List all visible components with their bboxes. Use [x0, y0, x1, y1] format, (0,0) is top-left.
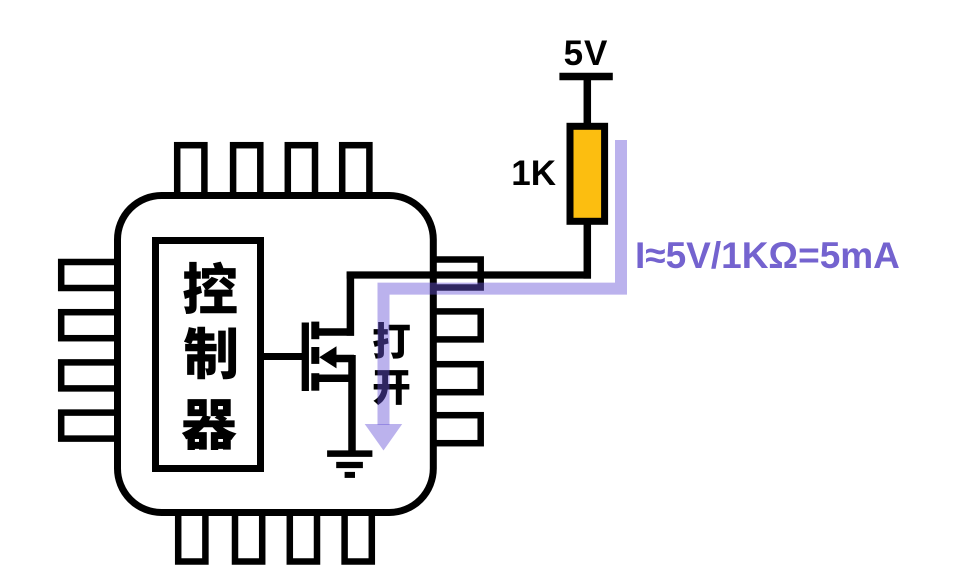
IC U1 microcontroller package body [118, 196, 434, 513]
current flow path (translucent purple) [384, 140, 622, 425]
label 制 [184, 327, 236, 380]
label 控 [183, 262, 236, 314]
current flow arrowhead [365, 424, 403, 451]
wire: output net from drain through right pin to resistor R1 [347, 271, 591, 278]
IC bottom pins (4) [178, 505, 372, 562]
power rail 5V bar [559, 73, 612, 81]
wire: controller output to gate of Q1 [258, 353, 305, 360]
transistor Q1 channel segments [311, 322, 319, 391]
IC right pins (4) [433, 260, 481, 444]
label 开 (turn-on annotation) [373, 370, 409, 405]
transistor Q1 drain stub [315, 328, 354, 336]
wire: drain up to output node [347, 272, 355, 336]
IC top pins (4) [177, 145, 369, 199]
transistor Q1 body stub with arrow [319, 346, 354, 368]
IC left pins (4) [61, 262, 120, 439]
controller block (控制器) box [156, 241, 261, 469]
svg-text:5V: 5V [564, 34, 609, 73]
resistor R1 1K body [570, 126, 605, 221]
svg-text:1K: 1K [511, 154, 556, 193]
label 打 (turn-on annotation) [373, 322, 410, 359]
transistor Q1 source stub [315, 375, 354, 383]
svg-text:I≈5V/1KΩ=5mA: I≈5V/1KΩ=5mA [635, 235, 900, 276]
wire: source/body down to ground [348, 355, 356, 452]
transistor Q1 N-MOSFET gate bar [302, 323, 309, 392]
wire: resistor upper lead to 5V [584, 78, 592, 124]
ground symbol [327, 454, 372, 475]
label 器 [182, 399, 237, 450]
wire: resistor lower lead [584, 221, 592, 279]
